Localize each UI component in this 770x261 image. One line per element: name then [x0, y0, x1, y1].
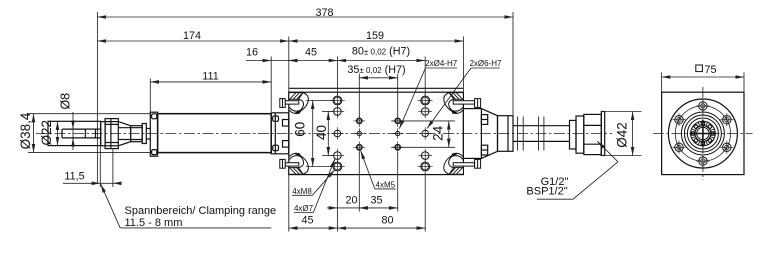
- dimension 40: [327, 111, 329, 155]
- svg-text:80: 80: [381, 215, 393, 227]
- svg-text:4xM5: 4xM5: [376, 181, 396, 190]
- svg-text:4xM8: 4xM8: [292, 187, 312, 196]
- svg-text:4xØ7: 4xØ7: [294, 204, 314, 213]
- dimension 16: [246, 60, 297, 62]
- fitting ring: [576, 116, 584, 153]
- hole M8 bottom-right: [418, 159, 433, 174]
- cone transition: [481, 109, 497, 159]
- svg-text:11,5: 11,5: [64, 171, 84, 183]
- svg-text:2xØ4-H7: 2xØ4-H7: [425, 59, 458, 68]
- hole M8 bottom-left: [330, 159, 345, 174]
- claw screw top-right: [453, 99, 480, 108]
- svg-text:111: 111: [202, 70, 218, 82]
- rear cap: [271, 113, 289, 154]
- hole O7 lower-right: [418, 149, 432, 163]
- front cap: [150, 112, 157, 156]
- end view bolt 2: [673, 113, 686, 126]
- hole M8 top-left: [330, 93, 345, 108]
- svg-text:45: 45: [301, 215, 313, 227]
- dimension O22: [57, 121, 59, 145]
- collet jaw block: [101, 119, 119, 149]
- feed tube shaft: [513, 126, 570, 142]
- claw rail top: [289, 87, 463, 89]
- svg-text:75: 75: [705, 64, 717, 76]
- claw screw bottom-left: [280, 159, 299, 168]
- end view spline radial lines: [692, 122, 715, 145]
- taper cone: [118, 122, 142, 146]
- hole O4-H7 left: [354, 128, 364, 138]
- hole M5 bottom-left: [353, 141, 365, 153]
- svg-text:BSP1/2": BSP1/2": [526, 185, 567, 197]
- claw hook bottom-right: [444, 153, 464, 174]
- claw hook top-right: [444, 93, 464, 114]
- dimension 11,5: [63, 182, 120, 184]
- hole O7 lower-left: [331, 149, 345, 163]
- claw hook bottom-left: [289, 153, 309, 174]
- port boss bottom: [481, 145, 487, 155]
- wire main centerline: [36, 133, 612, 135]
- dimension 159: [289, 40, 464, 42]
- end view spline teeth: [692, 122, 715, 145]
- flange plate body: [289, 92, 464, 174]
- svg-text:174: 174: [183, 30, 201, 42]
- dimension 35 +-0.02 H7: [359, 77, 397, 79]
- hole O6-H7 right: [419, 127, 432, 140]
- extension lines: [97, 12, 744, 232]
- dimension 20: [327, 207, 370, 209]
- svg-text:80± 0,02 (H7): 80± 0,02 (H7): [352, 46, 410, 58]
- svg-text:20: 20: [345, 194, 357, 206]
- dimension 24: [448, 121, 450, 147]
- svg-text:60: 60: [292, 122, 307, 137]
- svg-text:11.5 - 8 mm: 11.5 - 8 mm: [125, 217, 183, 229]
- rear cylinder: [498, 116, 514, 152]
- svg-text:159: 159: [366, 30, 384, 42]
- rear block: [463, 109, 481, 159]
- hole O7 upper-right: [418, 105, 432, 119]
- dimension O38.4: [33, 114, 35, 153]
- claw hook top-left: [289, 93, 309, 114]
- dimension O42: [632, 112, 634, 156]
- svg-text:45: 45: [305, 47, 317, 59]
- square symbol: [696, 65, 703, 72]
- dimension O8: [72, 112, 74, 150]
- svg-text:Ø8: Ø8: [59, 93, 73, 110]
- end view ring circles: [681, 112, 724, 155]
- end view centerline vertical: [702, 87, 704, 180]
- svg-text:Spannbereich/ Clamping range: Spannbereich/ Clamping range: [125, 205, 277, 217]
- svg-text:Ø42: Ø42: [615, 122, 630, 148]
- hole M8 top-right: [418, 93, 433, 108]
- clamping sleeve O22: [48, 121, 101, 145]
- end view bolt circle: [675, 106, 730, 161]
- neck stub: [146, 129, 150, 140]
- end view bolt 5: [720, 141, 733, 154]
- dimension 45 top: [289, 60, 338, 62]
- hole O6-H7 left: [331, 127, 344, 140]
- svg-text:24: 24: [431, 125, 446, 141]
- svg-text:378: 378: [315, 7, 333, 19]
- dimension 35 bottom: [359, 207, 397, 209]
- fitting hex nut: [584, 114, 602, 154]
- svg-text:40: 40: [314, 125, 329, 140]
- end view bolt 4: [673, 141, 686, 154]
- dimension 174: [97, 40, 288, 42]
- end view bolt 1: [696, 99, 709, 112]
- piston rod step: [131, 126, 143, 142]
- svg-text:2xØ6-H7: 2xØ6-H7: [469, 59, 502, 68]
- fitting end ring O42: [601, 112, 604, 156]
- hole O4-H7 right: [393, 128, 403, 138]
- fitting collar: [570, 120, 577, 149]
- hole O7 upper-left: [331, 105, 345, 119]
- end view center cross thick: [690, 120, 717, 147]
- port boss top: [481, 115, 487, 125]
- claw screw top-left: [280, 99, 299, 108]
- hole M5 top-left: [353, 115, 365, 127]
- hole M5 top-right: [392, 115, 404, 127]
- draw rod O8: [62, 129, 101, 138]
- end view centerline horizontal: [653, 133, 753, 135]
- cylinder tube O38.4: [158, 114, 272, 153]
- spacer collar: [142, 124, 146, 144]
- svg-text:Ø22: Ø22: [39, 120, 54, 146]
- end view outer circle: [668, 99, 737, 168]
- svg-text:35: 35: [370, 194, 382, 206]
- dimension 60: [312, 101, 314, 167]
- svg-text:35± 0,02 (H7): 35± 0,02 (H7): [347, 64, 405, 76]
- end view bolt 3: [720, 113, 733, 126]
- dimension 378: [97, 16, 513, 18]
- end view bolt 6: [696, 155, 709, 168]
- dimension 80 bottom: [337, 227, 425, 229]
- end view square 75: [662, 92, 744, 174]
- dimension 111: [150, 81, 271, 83]
- dimension square 75: [662, 76, 744, 78]
- thread marks on shaft: [518, 117, 544, 151]
- dimension 80 +-0.02 H7: [337, 60, 425, 62]
- svg-text:16: 16: [246, 47, 258, 59]
- dimension 45 bottom: [289, 227, 338, 229]
- hole M5 bottom-right: [392, 141, 404, 153]
- claw screw bottom-right: [453, 159, 480, 168]
- svg-text:Ø38,4: Ø38,4: [18, 112, 33, 149]
